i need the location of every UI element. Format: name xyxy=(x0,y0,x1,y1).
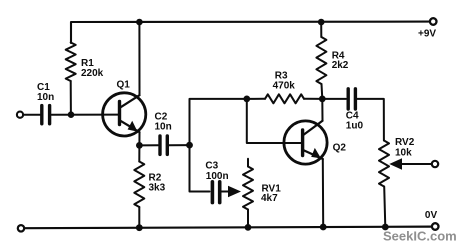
capacitor C4 xyxy=(348,89,355,109)
node D junction R3/R4/C4/collector xyxy=(319,96,326,103)
node RV2 / bottom rail xyxy=(382,224,389,231)
node RV1 / bottom rail xyxy=(245,224,252,231)
wire Q2 emitter to bottom rail xyxy=(322,159,324,227)
RV2 wiper arrowhead xyxy=(389,158,402,169)
wire C2 to node T xyxy=(169,144,190,146)
svg-text:RV2: RV2 xyxy=(395,137,415,148)
node A junction R1/C1/Q1 base xyxy=(68,111,75,118)
svg-text:10n: 10n xyxy=(155,122,172,133)
node Q2 emitter / bottom rail xyxy=(320,224,327,231)
capacitor C1 xyxy=(42,106,50,124)
wire bottom 0V rail xyxy=(25,227,431,229)
wire node D to C4 xyxy=(322,98,346,100)
svg-text:2k2: 2k2 xyxy=(332,60,349,71)
svg-text:SeekIC.com: SeekIC.com xyxy=(383,229,457,244)
0V terminal xyxy=(432,223,439,230)
resistor R2 xyxy=(138,145,140,161)
wire Q2 collector to node D xyxy=(321,99,323,121)
wire C3 to RV1 wiper arrow xyxy=(222,191,230,193)
resistor R4 xyxy=(320,22,322,37)
node Q1 collector / top rail xyxy=(136,19,143,26)
svg-text:220k: 220k xyxy=(81,68,104,79)
svg-text:100n: 100n xyxy=(206,171,229,182)
svg-text:470k: 470k xyxy=(273,81,296,92)
node R4 / top rail xyxy=(318,19,325,26)
wiper terminal xyxy=(432,161,438,167)
+9V terminal xyxy=(430,18,437,25)
wire RV2 wiper to terminal xyxy=(401,163,431,165)
node T junction on feedback line xyxy=(186,142,193,149)
svg-text:1u0: 1u0 xyxy=(346,121,364,132)
svg-text:3k3: 3k3 xyxy=(149,183,166,194)
wire top supply rail xyxy=(71,22,429,43)
input terminal xyxy=(17,112,23,118)
bottom-left terminal xyxy=(18,225,24,231)
transistor Q1 xyxy=(103,93,146,136)
capacitor C2 xyxy=(160,136,167,154)
node R2 / bottom rail xyxy=(136,224,143,231)
svg-text:0V: 0V xyxy=(425,210,438,221)
node B junction emitter/C2/R2 xyxy=(136,142,143,149)
wire input terminal to C1 xyxy=(24,114,40,116)
RV1 wiper arrowhead xyxy=(228,186,241,198)
potentiometer RV2 xyxy=(379,141,389,187)
wire node C to Q2 base xyxy=(247,99,301,143)
wire C4 to RV2 top xyxy=(357,99,384,141)
wire feedback vertical xyxy=(190,99,248,192)
wire C1 to node A xyxy=(51,114,120,116)
node C junction R3 left / Q2 base branch xyxy=(243,96,250,103)
svg-text:4k7: 4k7 xyxy=(261,193,278,204)
transistor Q2 xyxy=(284,121,327,164)
wire Q1 emitter to node B xyxy=(138,132,140,145)
svg-text:10k: 10k xyxy=(395,148,412,159)
svg-text:10n: 10n xyxy=(37,92,54,103)
svg-text:Q2: Q2 xyxy=(333,142,347,153)
wire node B to C2 xyxy=(139,144,158,146)
wire Q1 collector to rail xyxy=(138,22,140,95)
capacitor C3 xyxy=(212,182,219,203)
resistor R1 xyxy=(66,43,76,82)
potentiometer RV1 xyxy=(247,159,249,167)
resistor R3 xyxy=(247,98,265,100)
svg-text:Q1: Q1 xyxy=(117,80,131,91)
svg-text:+9V: +9V xyxy=(418,29,436,40)
